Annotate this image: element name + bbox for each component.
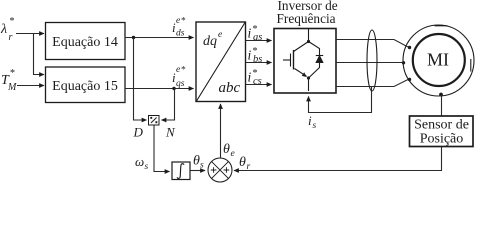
wire lambda to Equação 14 [16,33,44,35]
svg-text:e: e [176,16,180,26]
svg-text:Equação 14: Equação 14 [52,35,118,50]
transistor Q1 (IGBT inside inverter) [283,29,309,92]
svg-text:θ: θ [239,155,246,170]
node junction dot on i_ds wire [132,36,135,39]
node theta_s label [193,154,204,171]
cable bundle ellipse [367,30,377,91]
block Equação 14 [46,23,126,60]
motor MI (induction machine) [403,25,474,96]
wire i_ds branch down to divider D input [134,38,147,121]
wire motor to position sensor [441,95,443,116]
svg-text:*: * [10,68,15,79]
svg-text:abc: abc [219,80,241,96]
svg-text:*: * [181,66,186,76]
node junction dot IGBT bottom [307,76,310,79]
svg-text:i: i [248,26,252,41]
svg-text:θ: θ [223,142,230,157]
node junction dot IGBT top [307,40,310,43]
wire inverter output phase c [336,80,408,87]
node i_ds^e* label [172,16,186,39]
wire omega_s from divider to integrator [154,126,170,172]
node lambda_r* label [0,16,15,43]
svg-text:dq: dq [203,34,217,49]
svg-text:N: N [165,125,176,140]
transform block dq^e/abc U1 [196,22,246,102]
svg-text:*: * [181,17,186,27]
wire theta_e from summing junction up to abc block [220,104,222,158]
svg-text:ds: ds [176,29,185,39]
svg-text:λ: λ [0,22,7,37]
svg-text:e: e [218,30,222,40]
divider block (D/N ratio) [149,116,160,126]
node dot phase b at motor [402,61,405,64]
svg-text:s: s [313,121,317,131]
node i_as* label [248,24,263,43]
svg-text:Sensor de: Sensor de [414,118,469,133]
motor top tick [435,25,448,27]
summing junction (theta_s + theta_r) [208,158,232,182]
node junction dot on i_qs wire [172,87,175,90]
node i_cs* label [248,68,262,87]
svg-text:cs: cs [253,76,262,87]
integrator block [172,162,190,180]
wire i_cs* from dq/abc to inverter [246,84,272,86]
node omega_s label [135,154,149,172]
wire i_bs* from dq/abc to inverter [246,62,272,64]
wire i_qs branch down to divider N input [162,89,175,121]
svg-text:Frequência: Frequência [277,11,336,26]
svg-text:MI: MI [427,50,449,70]
node T_M* label [1,68,17,93]
node i_qs^e* label [172,65,186,89]
node i_s label [308,113,317,131]
wire i_qs* from Equação 15 to dq/abc block [125,88,194,90]
wire theta_s from integrator to summing junction [190,170,205,172]
node dot phase a at motor [408,46,411,49]
svg-text:i: i [248,48,252,63]
wire inverter output phase a [336,40,408,48]
svg-text:i: i [308,113,312,128]
block inverter (Inversor de Frequência) [274,0,338,93]
motor right tick [470,59,472,72]
svg-text:D: D [133,125,144,140]
wire i_ds* from Equação 14 to dq/abc block [125,37,194,39]
svg-text:Posição: Posição [420,132,464,147]
svg-text:M: M [7,82,17,93]
node i_bs* label [248,46,263,65]
wire i_as* from dq/abc to inverter [246,40,272,42]
diode D1 (freewheeling, inside inverter) [309,42,324,79]
svg-text:ω: ω [135,154,144,169]
svg-text:e: e [231,149,235,159]
svg-text:*: * [10,16,15,27]
block Equação 15 [46,67,126,103]
wire inverter output phase b [336,62,403,64]
svg-text:θ: θ [193,154,200,169]
svg-text:i: i [248,70,252,85]
svg-text:bs: bs [253,54,262,65]
wire i_s feedback into inverter [309,87,372,113]
svg-text:r: r [9,32,13,43]
node dot motor bottom [439,93,443,97]
block position sensor (Sensor de Posição) [410,116,474,147]
svg-text:as: as [253,32,262,43]
wire T_M to Equação 15 [17,85,44,87]
svg-text:e: e [176,65,180,75]
svg-text:s: s [200,161,204,171]
svg-text:qs: qs [176,79,185,89]
wire lambda branch to Equação 15 [34,34,45,75]
node theta_r label [239,155,251,172]
svg-text:Equação 15: Equação 15 [52,79,118,94]
svg-text:s: s [145,162,149,172]
wire theta_r from sensor to summing junction [234,147,442,171]
node dot phase c at motor [408,78,411,81]
node theta_e label [223,142,235,159]
